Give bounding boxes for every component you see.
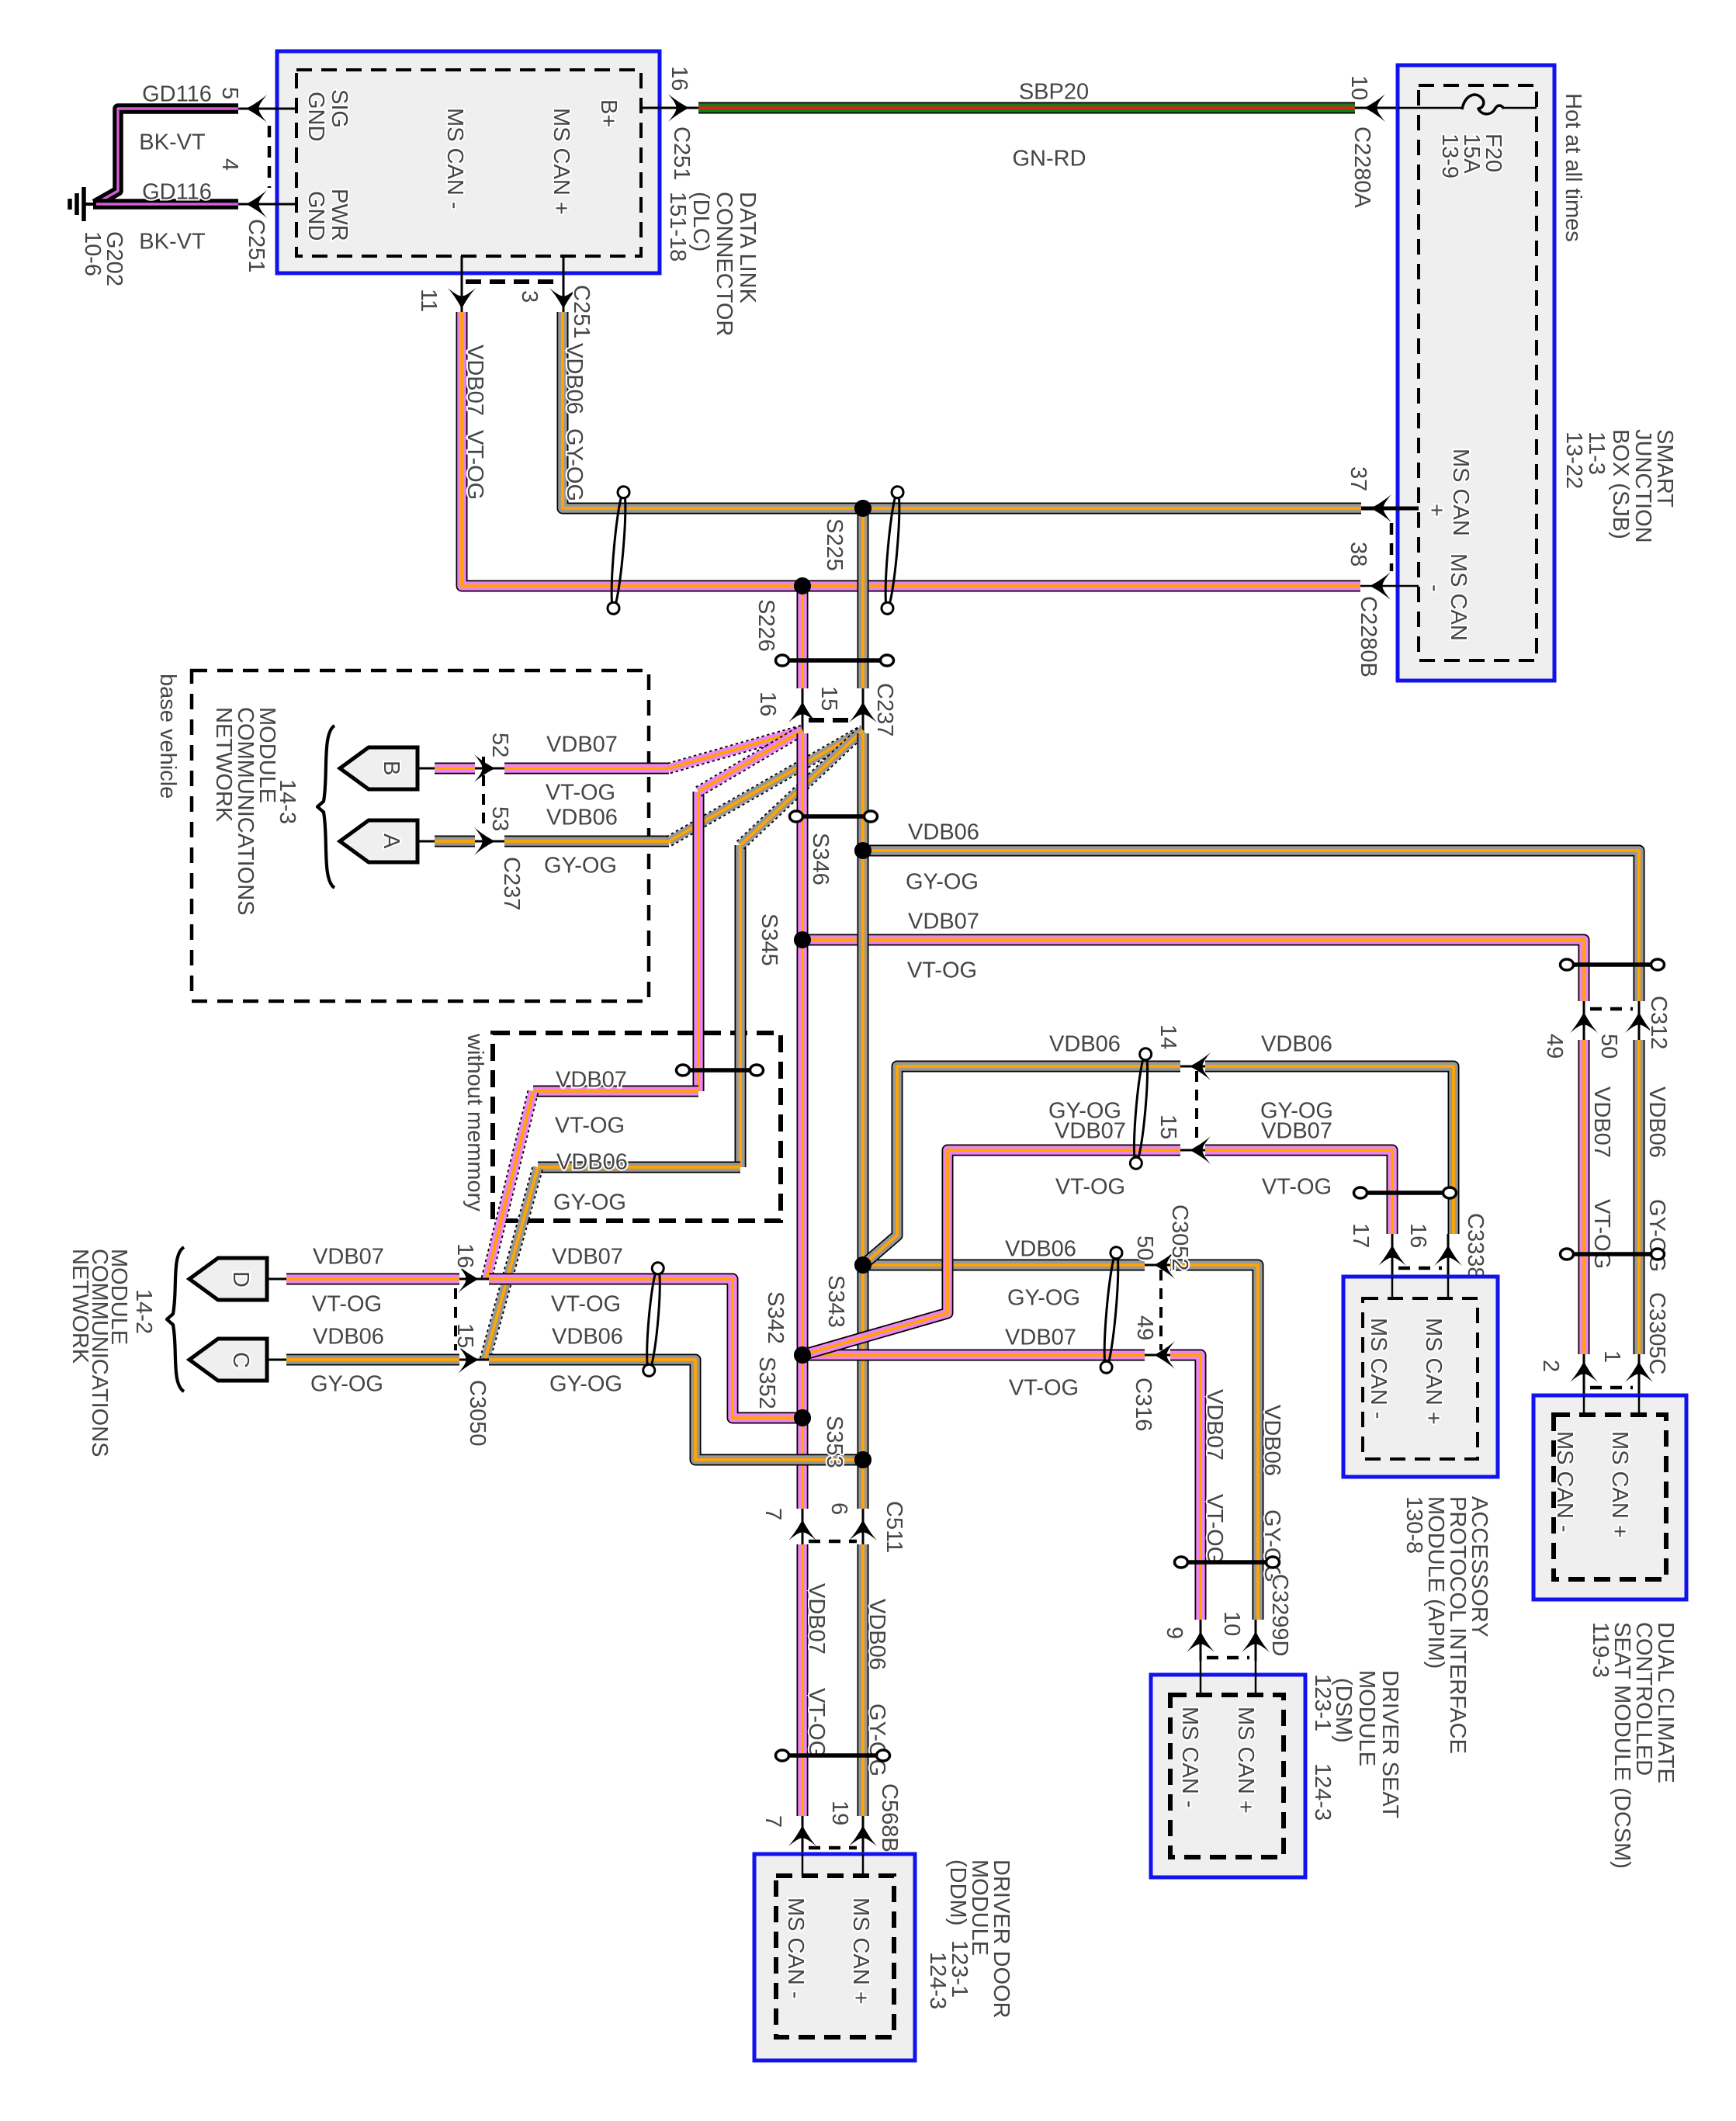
- connector C251 pin 4 arrow: [217, 158, 296, 272]
- svg-text:(DDM): (DDM): [945, 1859, 970, 1925]
- module DLC (DATA LINK CONNECTOR) box: [277, 51, 660, 273]
- wire VDB06 GY-OG from S343 to C316 pin 50: [863, 1236, 1145, 1310]
- wire VDB07 VT-OG from DLC pin 11 to SJB pin 38: [462, 312, 1360, 586]
- svg-text:C251: C251: [669, 126, 694, 180]
- connector C251 pin 16 arrow: [641, 66, 698, 180]
- module APIM box: [1343, 1277, 1498, 1477]
- wire VDB07 VT-OG from C3050 to S352: [489, 1244, 802, 1418]
- svg-text:VDB06: VDB06: [1644, 1086, 1669, 1158]
- wire VDB07 VT-OG main vertical from C237 to C511: [797, 733, 809, 1509]
- svg-text:VT-OG: VT-OG: [1055, 1174, 1125, 1199]
- connector C3305C dashed link: [1590, 1386, 1633, 1390]
- svg-text:11: 11: [416, 289, 441, 312]
- svg-text:130-8: 130-8: [1402, 1496, 1426, 1554]
- brace for B/A connectors: [317, 726, 334, 888]
- svg-text:VDB07: VDB07: [552, 1244, 623, 1269]
- svg-text:14-2: 14-2: [131, 1289, 156, 1334]
- svg-text:SBP20: SBP20: [1019, 79, 1089, 104]
- connector C237 dashed link 16-15: [809, 718, 857, 723]
- svg-text:13-22: 13-22: [1561, 431, 1586, 489]
- svg-text:19: 19: [827, 1800, 852, 1825]
- twisted pair symbol above C568B: [776, 1750, 890, 1761]
- connector C251 pin 3 arrow: [517, 256, 594, 338]
- box without memmory dashed: [493, 1033, 781, 1221]
- wire VDB07 VT-OG diagonal to C237 pin 16: [504, 730, 802, 768]
- svg-text:C2280B: C2280B: [1356, 596, 1381, 678]
- svg-text:C568B: C568B: [877, 1783, 902, 1852]
- connector C316 pin 49 arrow: [1131, 1315, 1175, 1431]
- connector C3050 dashed link: [454, 1288, 457, 1350]
- svg-text:C3299D: C3299D: [1267, 1574, 1292, 1656]
- svg-text:7: 7: [761, 1508, 785, 1520]
- connector C316 dashed link: [1159, 1270, 1163, 1350]
- connector C3299D dashed link: [1207, 1656, 1249, 1660]
- svg-text:C3338: C3338: [1463, 1213, 1488, 1279]
- wire VDB07 VT-OG from S342 to C316 pin 49: [802, 1325, 1145, 1400]
- svg-text:BK-VT: BK-VT: [139, 130, 206, 154]
- connector C3305C pin 1 arrow: [1599, 1292, 1669, 1395]
- connector C3050 pin 16 arrow: [452, 1243, 489, 1293]
- svg-text:GND: GND: [303, 191, 328, 241]
- twisted pair symbol above C3299D: [1175, 1557, 1280, 1568]
- brace for D/C connectors: [167, 1247, 184, 1391]
- svg-text:S342: S342: [763, 1291, 788, 1344]
- svg-text:VDB07: VDB07: [1261, 1118, 1332, 1143]
- svg-text:VDB06: VDB06: [908, 820, 979, 844]
- svg-text:123-1: 123-1: [1310, 1674, 1335, 1731]
- svg-text:MS CAN +: MS CAN +: [1421, 1318, 1446, 1425]
- svg-text:B: B: [379, 761, 404, 775]
- connector C251 dashed link 5-4: [268, 126, 272, 188]
- svg-text:S345: S345: [757, 913, 781, 966]
- wire VDB07 VT-OG from C511 to DDM pin 7: [802, 1544, 829, 1816]
- connector C316 pin 50 arrow: [1132, 1236, 1175, 1279]
- svg-text:Hot at all times: Hot at all times: [1561, 93, 1585, 242]
- svg-text:C3305C: C3305C: [1644, 1292, 1669, 1374]
- wire VDB06 GY-OG from C312 to DCSM pin 1: [1639, 1040, 1669, 1354]
- label MODULE COMMUNICATIONS NETWORK 14-2: [68, 1249, 156, 1457]
- svg-text:16: 16: [755, 691, 780, 716]
- label DUAL CLIMATE CONTROLLED SEAT MODULE (DCSM) 119-3: [1588, 1622, 1678, 1869]
- svg-text:VDB07: VDB07: [908, 909, 979, 934]
- connector C251 pin 5 arrow: [217, 87, 296, 123]
- connector C3299D pin 9 arrow: [1162, 1620, 1215, 1661]
- wire VDB06 branch S225 to C237 pin 15: [858, 508, 869, 688]
- wire VDB06 GY-OG from C to C3050 pin 15: [267, 1324, 459, 1396]
- svg-text:S346: S346: [808, 833, 833, 885]
- svg-text:GY-OG: GY-OG: [1644, 1199, 1669, 1272]
- svg-text:VT-OG: VT-OG: [546, 780, 615, 805]
- wire VDB07 VT-OG from S342 to C3052 pin 15: [802, 1118, 1180, 1355]
- splice S353: [822, 1416, 871, 1468]
- twisted pair symbol above C3338: [1354, 1187, 1457, 1198]
- connector C pentagon: [189, 1339, 267, 1381]
- connector C511 pin 7 arrow: [761, 1508, 816, 1544]
- svg-text:GY-OG: GY-OG: [553, 1190, 626, 1215]
- box base vehicle dashed: [192, 671, 649, 1001]
- svg-text:GY-OG: GY-OG: [544, 853, 617, 878]
- svg-text:15: 15: [816, 686, 841, 711]
- module DSM box: [1151, 1661, 1305, 1877]
- svg-text:VT-OG: VT-OG: [1009, 1375, 1079, 1400]
- svg-text:VDB06: VDB06: [865, 1599, 889, 1670]
- svg-text:C2280A: C2280A: [1350, 126, 1374, 208]
- svg-text:50: 50: [1132, 1236, 1157, 1260]
- svg-text:VDB06: VDB06: [1005, 1236, 1076, 1261]
- svg-text:37: 37: [1346, 466, 1370, 491]
- svg-text:7: 7: [761, 1815, 785, 1828]
- svg-text:DATA LINK: DATA LINK: [735, 192, 760, 304]
- svg-text:VDB07: VDB07: [556, 1067, 627, 1092]
- svg-text:VDB07: VDB07: [1202, 1389, 1227, 1461]
- connector C3338 pin 17 arrow: [1348, 1223, 1406, 1277]
- wire VDB06 GY-OG diagonal to C237 pin 15: [504, 730, 863, 841]
- wire VDB07 VT-OG without-memory variant: [487, 730, 802, 1279]
- label DLC internal pin names: [303, 89, 621, 241]
- label SMART JUNCTION BOX (SJB) 11-3 13-22: [1561, 429, 1677, 543]
- svg-text:S353: S353: [822, 1416, 847, 1468]
- svg-text:(DLC): (DLC): [688, 192, 713, 251]
- svg-text:VDB07: VDB07: [1589, 1086, 1614, 1158]
- connector C3299D pin 10 arrow: [1219, 1574, 1292, 1661]
- svg-text:SIG: SIG: [327, 89, 352, 128]
- splice S346: [808, 833, 871, 885]
- wire VDB06 GY-OG from C316 to DSM pin 10: [1170, 1265, 1258, 1620]
- svg-text:16: 16: [1405, 1223, 1430, 1248]
- connector C511 pin 6 arrow: [826, 1501, 906, 1553]
- svg-text:11-3: 11-3: [1584, 431, 1609, 475]
- connector C237 pin 53 arrow: [474, 806, 524, 910]
- connector C568B dashed link: [809, 1846, 857, 1850]
- ground G202 10-6: [70, 187, 126, 286]
- connector A pentagon: [340, 820, 418, 862]
- svg-text:MODULE: MODULE: [1354, 1670, 1379, 1766]
- svg-text:VDB06: VDB06: [1261, 1031, 1332, 1056]
- svg-text:GY-OG: GY-OG: [549, 1371, 622, 1396]
- svg-text:49: 49: [1542, 1034, 1567, 1059]
- svg-text:+: +: [1424, 504, 1449, 517]
- connector C3305C pin 2 arrow: [1538, 1354, 1598, 1395]
- wire VDB06 GY-OG from C511 to DDM pin 19: [863, 1544, 889, 1816]
- label SJB MS CAN - pin 38: [1422, 553, 1471, 641]
- svg-text:MS CAN -: MS CAN -: [1366, 1318, 1391, 1419]
- svg-text:15: 15: [1156, 1114, 1180, 1139]
- svg-text:C: C: [228, 1352, 253, 1368]
- connector C3052 dashed link: [1195, 1071, 1198, 1145]
- wire GD116 BK-VT to DLC pin 5 (SIG GND): [95, 81, 238, 204]
- wire GD116 BK-VT to DLC pin 4 (PWR GND): [93, 179, 238, 254]
- svg-text:VDB06: VDB06: [313, 1324, 384, 1349]
- svg-text:10-6: 10-6: [80, 231, 105, 276]
- svg-text:53: 53: [487, 806, 512, 831]
- svg-text:C316: C316: [1131, 1378, 1156, 1431]
- wire VDB07 VT-OG from S345 to C312 pin 49: [802, 909, 1584, 1001]
- twisted pair symbol above C3305C: [1561, 1249, 1665, 1260]
- connector C312 dashed link: [1590, 1007, 1633, 1011]
- connector C3338 pin 16 arrow: [1405, 1213, 1488, 1279]
- connector C3052 pin 15 arrow: [1156, 1114, 1211, 1270]
- svg-text:GD116: GD116: [142, 81, 212, 106]
- svg-text:GY-OG: GY-OG: [906, 869, 979, 894]
- svg-text:50: 50: [1596, 1034, 1621, 1059]
- splice dots overlay: [794, 500, 871, 1468]
- splice S345: [757, 913, 811, 966]
- svg-text:B+: B+: [596, 99, 621, 127]
- connector C568B pin 19 arrow: [827, 1783, 902, 1854]
- svg-text:38: 38: [1346, 542, 1370, 567]
- svg-text:124-3: 124-3: [925, 1952, 950, 2009]
- connector C511 dashed link: [809, 1540, 857, 1544]
- svg-text:17: 17: [1348, 1223, 1373, 1248]
- wire VDB06 GY-OG from C3050 to S353: [489, 1324, 863, 1460]
- connector C251 dashed link 11-3: [466, 279, 560, 284]
- svg-text:124-3: 124-3: [1310, 1763, 1335, 1821]
- splice S225: [822, 500, 871, 571]
- label ACCESSORY PROTOCOL INTERFACE MODULE (APIM) 130-8: [1402, 1496, 1492, 1754]
- svg-text:MS CAN +: MS CAN +: [848, 1897, 873, 2005]
- svg-text:VT-OG: VT-OG: [804, 1688, 829, 1758]
- connector B pentagon: [340, 747, 418, 789]
- svg-text:VT-OG: VT-OG: [555, 1113, 625, 1138]
- connector C2280B pin 38 arrow: [1346, 542, 1419, 678]
- twisted pair symbol at C316: [1100, 1246, 1122, 1374]
- svg-text:VDB06: VDB06: [1260, 1405, 1284, 1476]
- svg-text:without memmory: without memmory: [463, 1033, 487, 1211]
- svg-text:14: 14: [1156, 1024, 1180, 1049]
- svg-text:C511: C511: [882, 1501, 906, 1553]
- svg-text:10: 10: [1346, 75, 1371, 100]
- connector C3338 dashed link: [1398, 1267, 1442, 1270]
- wire VDB07 VT-OG from C3052 to APIM pin 17: [1205, 1118, 1392, 1234]
- svg-text:VT-OG: VT-OG: [1202, 1494, 1227, 1564]
- svg-text:CONNECTOR: CONNECTOR: [712, 192, 736, 336]
- svg-text:MS CAN: MS CAN: [1446, 553, 1471, 641]
- svg-text:S226: S226: [754, 599, 778, 652]
- connector C237 dashed link 52-53: [482, 757, 485, 827]
- svg-text:VT-OG: VT-OG: [1262, 1174, 1332, 1199]
- module DCSM box: [1533, 1395, 1686, 1599]
- label MODULE COMMUNICATIONS NETWORK 14-3: [211, 707, 300, 916]
- svg-text:MS CAN -: MS CAN -: [1177, 1707, 1202, 1808]
- svg-text:151-18: 151-18: [665, 192, 690, 262]
- connector C251 pin 11 arrow: [416, 256, 476, 312]
- svg-text:MS CAN -: MS CAN -: [1552, 1431, 1577, 1533]
- wire VDB07 branch S226 to C237 pin 16: [797, 586, 809, 688]
- svg-text:DRIVER SEAT: DRIVER SEAT: [1377, 1670, 1402, 1819]
- svg-text:GY-OG: GY-OG: [1260, 1509, 1284, 1582]
- splice S343: [823, 1256, 871, 1328]
- svg-text:GY-OG: GY-OG: [865, 1703, 889, 1776]
- svg-text:A: A: [379, 833, 404, 849]
- connector C568B pin 7 arrow: [761, 1815, 816, 1854]
- svg-text:MS CAN +: MS CAN +: [1607, 1431, 1632, 1538]
- svg-text:5: 5: [217, 87, 242, 99]
- svg-text:BOX (SJB): BOX (SJB): [1608, 429, 1633, 539]
- module SJB (SMART JUNCTION BOX): [1398, 65, 1554, 681]
- svg-text:C237: C237: [872, 683, 897, 736]
- svg-text:16: 16: [452, 1243, 477, 1268]
- twisted pair symbol in without-memmory box: [677, 1065, 764, 1076]
- svg-text:PWR: PWR: [327, 189, 352, 241]
- svg-text:C251: C251: [569, 285, 594, 338]
- svg-text:BK-VT: BK-VT: [139, 229, 206, 254]
- svg-text:4: 4: [217, 158, 242, 171]
- wire VDB06 GY-OG without-memory variant: [485, 730, 863, 1360]
- connector C237 pin 16 arrow: [755, 688, 816, 733]
- connector C3050 pin 15 arrow: [452, 1323, 490, 1446]
- svg-text:VDB06: VDB06: [556, 1149, 628, 1174]
- svg-text:VDB07: VDB07: [463, 345, 487, 416]
- svg-text:VDB07: VDB07: [313, 1244, 384, 1269]
- svg-text:2: 2: [1538, 1360, 1563, 1372]
- label DRIVER SEAT MODULE (DSM) 123-1 124-3: [1310, 1670, 1402, 1821]
- splice S352: [754, 1357, 811, 1426]
- svg-text:VDB06: VDB06: [562, 343, 587, 414]
- wire VDB06 GY-OG from S346 to C312 pin 50: [863, 820, 1639, 1001]
- svg-text:VDB07: VDB07: [546, 732, 618, 757]
- svg-text:49: 49: [1132, 1315, 1157, 1340]
- module DDM box: [754, 1854, 915, 2060]
- svg-text:MS CAN: MS CAN: [1448, 449, 1473, 536]
- svg-text:S225: S225: [822, 518, 847, 571]
- twisted pair symbol after C3050: [643, 1262, 664, 1377]
- wire VDB06 GY-OG from A to C237 pin 53: [418, 805, 618, 878]
- wire VDB07 VT-OG from D to C3050 pin 16: [267, 1244, 459, 1316]
- wire VDB06 GY-OG main vertical from C237 to C511: [858, 733, 869, 1509]
- svg-text:VT-OG: VT-OG: [907, 958, 977, 983]
- connector C3052 pin 14 arrow: [1156, 1024, 1211, 1080]
- wire VDB07 VT-OG from B to C237 pin 52: [418, 732, 618, 805]
- svg-text:C312: C312: [1646, 996, 1671, 1049]
- svg-text:C3052: C3052: [1167, 1204, 1192, 1270]
- svg-text:C251: C251: [244, 219, 269, 272]
- svg-text:NETWORK: NETWORK: [211, 707, 236, 823]
- svg-text:MS CAN +: MS CAN +: [549, 108, 573, 215]
- svg-text:1: 1: [1599, 1350, 1624, 1363]
- connector D pentagon: [189, 1258, 267, 1300]
- svg-text:VDB07: VDB07: [804, 1583, 829, 1655]
- svg-text:VDB06: VDB06: [546, 805, 618, 830]
- svg-text:52: 52: [487, 733, 512, 757]
- svg-text:GND: GND: [303, 92, 328, 141]
- twisted pair symbol above C312: [1561, 959, 1665, 970]
- svg-text:C3050: C3050: [465, 1380, 490, 1446]
- label SJB MS CAN + pin 37: [1424, 449, 1473, 536]
- svg-text:VT-OG: VT-OG: [312, 1291, 382, 1316]
- svg-text:VDB06: VDB06: [1049, 1031, 1121, 1056]
- svg-text:D: D: [228, 1271, 253, 1288]
- splice S226: [754, 577, 811, 652]
- svg-text:JUNCTION: JUNCTION: [1630, 429, 1655, 543]
- connector C2280B pin 37 arrow: [1346, 466, 1419, 571]
- fuse F20 15A 13-9: [1398, 95, 1537, 178]
- label DRIVER DOOR MODULE (DDM) 123-1 124-3: [925, 1859, 1014, 2019]
- svg-text:C237: C237: [499, 857, 524, 910]
- svg-text:119-3: 119-3: [1588, 1622, 1613, 1678]
- connector C237 pin 52 arrow: [474, 733, 512, 782]
- svg-text:6: 6: [826, 1502, 851, 1515]
- twisted pair symbol on S225/S226 runs right: [881, 486, 903, 615]
- connector C312 pin 50 arrow: [1596, 996, 1671, 1059]
- svg-text:S343: S343: [823, 1275, 848, 1328]
- wire VDB07 VT-OG from C316 to DSM pin 9: [1170, 1355, 1227, 1620]
- connector C312 pin 49 arrow: [1542, 1001, 1598, 1059]
- svg-text:MS CAN -: MS CAN -: [442, 108, 467, 210]
- svg-text:GN-RD: GN-RD: [1012, 146, 1086, 171]
- wire VDB06 GY-OG from DLC pin 3 to SJB pin 37: [562, 312, 1361, 508]
- label DATA LINK CONNECTOR (DLC) 151-18: [665, 192, 760, 336]
- svg-text:VT-OG: VT-OG: [551, 1291, 621, 1316]
- svg-text:S352: S352: [754, 1357, 779, 1409]
- svg-text:GY-OG: GY-OG: [310, 1371, 383, 1396]
- svg-text:VDB07: VDB07: [1055, 1118, 1126, 1143]
- svg-text:GY-OG: GY-OG: [562, 428, 587, 501]
- svg-text:VDB06: VDB06: [552, 1324, 623, 1349]
- connector C2280A pin 10 arrow: [1346, 75, 1398, 208]
- svg-text:VT-OG: VT-OG: [463, 430, 487, 500]
- svg-text:VT-OG: VT-OG: [1589, 1199, 1614, 1269]
- svg-text:GY-OG: GY-OG: [1007, 1285, 1080, 1310]
- wire VDB06 GY-OG from S343 to C3052 pin 14: [863, 1031, 1180, 1265]
- svg-text:-: -: [1422, 584, 1447, 592]
- wire VDB06 GY-OG from C3052 to APIM pin 16: [1205, 1031, 1454, 1234]
- svg-text:MS CAN -: MS CAN -: [783, 1897, 808, 1999]
- twisted pair symbol on S225/S226 runs left: [607, 486, 629, 615]
- twisted pair symbol below C237: [790, 811, 878, 822]
- svg-text:VDB07: VDB07: [1005, 1325, 1076, 1350]
- svg-text:GD116: GD116: [142, 179, 212, 204]
- svg-text:MS CAN +: MS CAN +: [1233, 1707, 1258, 1814]
- svg-text:10: 10: [1219, 1611, 1244, 1636]
- svg-text:NETWORK: NETWORK: [68, 1249, 92, 1364]
- svg-text:13-9: 13-9: [1437, 133, 1462, 178]
- splice S342: [763, 1291, 811, 1364]
- svg-text:base vehicle: base vehicle: [155, 674, 180, 799]
- svg-text:9: 9: [1162, 1627, 1187, 1639]
- twisted pair symbol at C3052: [1130, 1048, 1152, 1170]
- svg-text:3: 3: [517, 290, 542, 303]
- wire VDB07 VT-OG from C312 to DCSM pin 2: [1584, 1040, 1614, 1354]
- svg-text:16: 16: [667, 66, 691, 91]
- connector C237 pin 15 arrow: [816, 683, 897, 736]
- twisted pair symbol above C237: [776, 655, 894, 666]
- wire SBP20 GN-RD from DLC pin 16 to SJB pin 10: [698, 79, 1355, 171]
